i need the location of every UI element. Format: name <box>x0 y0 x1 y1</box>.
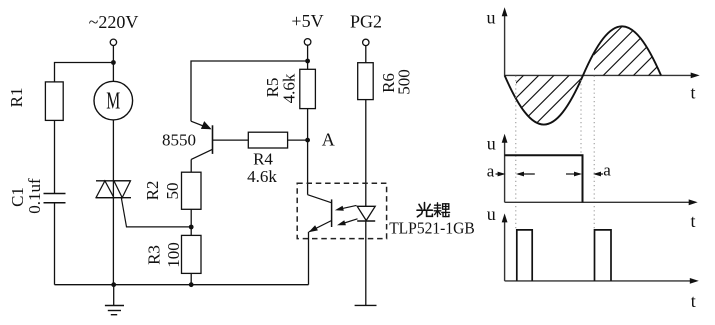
optocoupler phototransistor collector <box>308 195 332 203</box>
optocoupler phototransistor emitter <box>309 221 332 232</box>
transistor Q1 8550 <box>162 121 248 159</box>
svg-text:M: M <box>106 89 120 115</box>
svg-text:R4: R4 <box>253 149 273 168</box>
svg-text:500: 500 <box>394 69 413 95</box>
bottom rail wire <box>55 284 309 286</box>
motor M <box>94 81 133 120</box>
resistor R4 4.6k <box>247 132 287 186</box>
wire LED cathode down <box>365 221 367 305</box>
resistor R1 <box>7 82 63 121</box>
wire +5V junction to R5 <box>307 61 309 69</box>
wire left rail to R1 <box>55 63 114 82</box>
wire emitter to bottom rail <box>308 232 310 285</box>
dimension arrow a2 left <box>593 172 603 177</box>
wire C1 to bottom rail <box>54 203 56 285</box>
node R2/R3 junction <box>189 225 194 230</box>
ground <box>105 285 124 315</box>
svg-text:50: 50 <box>163 183 182 200</box>
label 光耦 (hand-drawn strokes) <box>417 203 432 217</box>
svg-text:TLP521-1GB: TLP521-1GB <box>389 219 475 238</box>
wire +5V rail to transistor emitter <box>191 61 308 121</box>
wire R5 to node A <box>307 109 309 141</box>
svg-text:t: t <box>691 211 696 231</box>
node +5V junction <box>305 59 310 64</box>
resistor R5 4.6k <box>263 69 315 108</box>
cathode end bar <box>355 304 377 306</box>
wire 220V terminal to junction <box>112 46 114 63</box>
chart3 u axis <box>487 204 508 281</box>
dimension arrow a1 right <box>496 172 506 177</box>
resistor R3 100 <box>145 235 202 273</box>
svg-text:~220V: ~220V <box>89 12 139 32</box>
svg-text:u: u <box>487 134 496 154</box>
chart2 u axis <box>487 134 508 203</box>
LED in optocoupler <box>357 206 375 221</box>
svg-text:R3: R3 <box>145 245 164 265</box>
optocoupler phototransistor base bar <box>331 199 333 227</box>
wire triac to bottom rail <box>112 198 114 285</box>
terminal ~220V <box>89 12 139 46</box>
dimension arrow a1 left <box>516 172 535 177</box>
chart3 t axis <box>505 278 699 311</box>
wire node A to optocoupler <box>307 140 309 195</box>
svg-text:0.1uf: 0.1uf <box>25 178 44 214</box>
wire R3 to bottom rail <box>190 273 192 284</box>
node A <box>305 129 335 149</box>
resistor R2 50 <box>143 172 201 209</box>
optocoupler U1 TLP521-1GB dashed box <box>297 183 386 238</box>
wire 220V junction to motor <box>112 63 114 82</box>
wire motor to triac <box>112 120 114 181</box>
svg-text:a: a <box>487 162 495 181</box>
triac V1 <box>96 181 131 198</box>
chart1 u axis <box>487 7 508 75</box>
chart1 t axis <box>505 73 700 103</box>
svg-text:PG2: PG2 <box>350 12 382 32</box>
svg-text:100: 100 <box>164 242 183 268</box>
svg-text:+5V: +5V <box>291 11 323 31</box>
svg-text:u: u <box>487 204 496 224</box>
wire R4 to node A <box>288 139 308 141</box>
chart1 hatching <box>452 17 643 132</box>
svg-text:A: A <box>322 129 335 149</box>
chart3 pulse 2 <box>595 230 612 281</box>
wire R2 to node <box>190 209 192 227</box>
svg-text:4.6k: 4.6k <box>247 167 277 186</box>
terminal PG2 <box>350 12 382 46</box>
dotted guide line a-end <box>593 76 595 230</box>
svg-text:t: t <box>691 291 696 311</box>
svg-text:t: t <box>691 82 696 102</box>
node ground junction <box>111 282 116 287</box>
svg-text:4.6k: 4.6k <box>280 73 299 103</box>
resistor R6 500 <box>358 63 414 100</box>
dimension arrow a2 right <box>566 172 582 177</box>
wire R1 to C1 <box>54 120 56 193</box>
chart2 square wave <box>505 155 583 202</box>
wire PG2 to R6 <box>365 46 367 63</box>
wire collector to R2 <box>190 159 192 172</box>
light arrow 2 <box>337 219 358 226</box>
node R3 bottom junction <box>189 282 194 287</box>
wire node to R3 <box>190 227 192 235</box>
terminal +5V <box>291 11 323 45</box>
node 220V junction <box>111 60 116 65</box>
light arrow 1 <box>335 205 357 210</box>
chart3 pulse 1 <box>517 230 532 281</box>
wire R6 to LED anode <box>365 100 367 207</box>
svg-text:R2: R2 <box>143 181 162 201</box>
wire +5V terminal to junction <box>307 45 309 61</box>
svg-text:u: u <box>487 8 496 28</box>
svg-text:a: a <box>603 161 611 180</box>
capacitor C1 0.1uf <box>8 178 66 214</box>
wire triac gate to R2/R3 node <box>121 198 191 227</box>
svg-text:R1: R1 <box>7 87 26 107</box>
svg-text:8550: 8550 <box>162 130 196 149</box>
dotted guide line a-start <box>515 76 517 230</box>
chart2 t axis <box>505 199 698 231</box>
dotted guide line zero-cross <box>580 76 582 155</box>
chart1 sine wave <box>505 26 661 124</box>
